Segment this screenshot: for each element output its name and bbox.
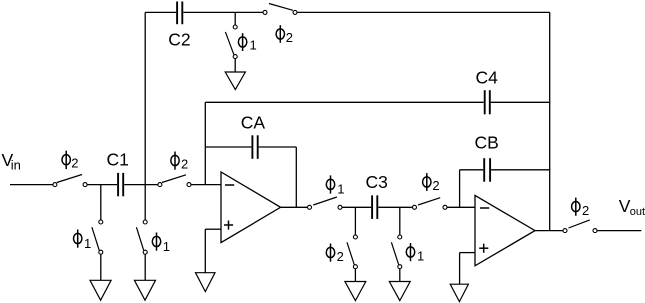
wire CB loop top y=169.8 left segment — [460, 169, 484, 171]
label phi2 at S11 — [572, 198, 580, 216]
op-amp U2 — [475, 195, 535, 265]
wire stub node to switch S3 — [234, 12, 236, 25]
wire C4 feedback right segment — [491, 101, 550, 103]
ground G6 — [389, 282, 410, 301]
switch S2 phi2 horizontal — [158, 175, 191, 187]
label phi1 at S10 — [406, 243, 414, 261]
svg-text:2: 2 — [337, 249, 344, 264]
label phi2 at S1 — [62, 151, 70, 169]
svg-text:2: 2 — [582, 203, 589, 218]
wire right vertical x=550 (Vout node to top feedback) — [549, 12, 551, 230]
wire top feedback mid segment — [183, 11, 262, 13]
wire S8 to opamp2 inverting input — [447, 206, 475, 208]
ground G3 — [134, 280, 155, 300]
wire S1 to C1 — [87, 184, 117, 186]
wire vertical C4/CA node to opamp1 inverting input — [204, 102, 206, 184]
wire S7 to C3 — [342, 206, 371, 208]
switch S10 phi1 vertical — [391, 235, 401, 269]
svg-text:out: out — [630, 206, 645, 218]
label phi1 at S6 — [152, 233, 160, 251]
wire CB loop top right segment — [491, 169, 550, 171]
wire S2 to opamp1 inverting input — [191, 184, 221, 186]
svg-text:2: 2 — [71, 156, 78, 171]
capacitor CA — [252, 135, 257, 159]
ground G7 — [450, 284, 468, 301]
switch S3 phi1 vertical (top) — [225, 25, 237, 59]
label Vout — [619, 196, 645, 218]
label phi1 at S7 — [326, 175, 334, 193]
svg-text:C4: C4 — [476, 67, 499, 87]
op-amp U1 — [221, 172, 281, 243]
wire CA loop top y=147 left segment — [205, 146, 251, 148]
wire opamp2 noninverting input — [460, 252, 475, 254]
wire CA loop top right segment — [259, 146, 297, 148]
svg-text:1: 1 — [250, 37, 257, 52]
wire to ground G4 — [204, 229, 206, 273]
switch S4 phi2 horizontal (top) — [263, 4, 297, 15]
wire opamp1 output — [281, 206, 308, 208]
ground G2 — [90, 280, 111, 300]
switch S1 phi2 horizontal (input) — [53, 175, 87, 187]
label phi2 at S8 — [423, 173, 431, 191]
svg-text:1: 1 — [417, 249, 424, 264]
label phi2 at S9 — [326, 244, 334, 262]
op-amp U1 plus sign — [224, 221, 233, 230]
wire Vout — [597, 230, 641, 232]
wire switch S3 to ground — [234, 59, 236, 72]
capacitor C1 — [118, 173, 123, 196]
switch S6 phi1 vertical — [136, 220, 147, 254]
switch S5 phi1 vertical — [92, 220, 103, 254]
wire C4 feedback y=102.3 left segment — [205, 101, 483, 103]
switch S9 phi2 vertical — [347, 235, 357, 269]
wire node A down to switch S5 — [100, 185, 102, 220]
op-amp U1 minus sign — [225, 184, 234, 186]
svg-text:1: 1 — [163, 239, 170, 254]
wire top feedback right segment — [297, 11, 550, 13]
svg-text:2: 2 — [181, 157, 188, 172]
switch S11 phi2 horizontal (output) — [563, 220, 597, 233]
label phi1 at S3 — [238, 33, 246, 51]
wire top feedback y=12.4 left segment — [145, 11, 176, 13]
label phi2 at S4 — [276, 25, 284, 43]
svg-text:2: 2 — [286, 30, 293, 45]
wire CB loop left vertical — [459, 170, 461, 208]
wire S9 to ground — [354, 269, 356, 282]
switch S7 phi1 horizontal (opamp1 output) — [308, 197, 343, 209]
ground G5 — [345, 282, 366, 301]
wire opamp1 noninverting input — [205, 228, 221, 230]
capacitor CB — [484, 158, 490, 182]
capacitor C4 — [485, 90, 490, 114]
label Vin — [2, 150, 21, 172]
label phi1 at S5 — [74, 230, 82, 248]
wire Vin input y=184.6 — [10, 184, 53, 186]
wire vertical C2 left to input node x=145 — [144, 12, 146, 219]
wire CA loop right vertical to opamp1 output — [295, 147, 297, 207]
label phi2 at S2 — [171, 152, 179, 170]
ground G4 — [196, 273, 216, 292]
wire opamp2 output — [535, 230, 563, 232]
op-amp U2 plus sign — [479, 244, 488, 253]
wire C3 to switch S8 — [378, 206, 412, 208]
wire node down to switch S9 — [354, 207, 356, 235]
svg-text:1: 1 — [337, 182, 344, 197]
svg-text:CA: CA — [241, 113, 266, 133]
wire S10 to ground — [399, 269, 401, 282]
svg-text:CB: CB — [475, 133, 499, 153]
ground G1 — [225, 72, 245, 90]
capacitor C3 — [372, 195, 377, 219]
svg-text:C3: C3 — [366, 172, 388, 192]
svg-text:C2: C2 — [168, 30, 190, 50]
wire S5 to ground — [100, 254, 102, 280]
capacitor C2 — [177, 2, 182, 25]
switch S8 phi2 horizontal — [413, 198, 448, 210]
op-amp U2 minus sign — [480, 207, 489, 209]
wire to ground G7 — [459, 253, 461, 285]
svg-text:1: 1 — [84, 236, 91, 251]
wire node down to switch S10 — [399, 207, 401, 235]
wire C1 to switch S2 — [124, 184, 158, 186]
wire S6 to ground — [144, 254, 146, 280]
svg-text:in: in — [11, 157, 21, 172]
svg-text:C1: C1 — [107, 149, 129, 169]
svg-text:2: 2 — [432, 178, 439, 193]
